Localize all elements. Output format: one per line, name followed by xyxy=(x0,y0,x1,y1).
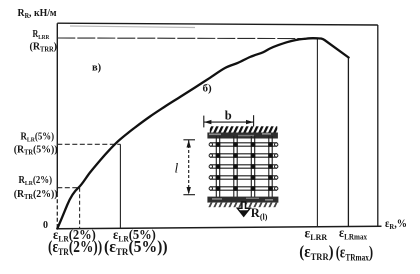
inset: geogrid mesh horizontal ribs xyxy=(210,143,277,190)
top frame smear (scan ghost line) xyxy=(70,26,195,28)
svg-text:(εTR(2%)): (εTR(2%)) xyxy=(48,239,102,257)
svg-text:(εTRmax): (εTRmax) xyxy=(336,244,374,263)
inset: geogrid mesh vertical ribs xyxy=(216,136,272,200)
inset: applied load arrow R(l) xyxy=(237,202,250,216)
inset: mesh junction knots xyxy=(216,142,273,191)
inset: mesh end rings left xyxy=(209,143,212,190)
svg-text:RLR(5%): RLR(5%) xyxy=(21,131,55,144)
curve б) load-strain curve xyxy=(57,38,348,228)
inset: top clamp bar xyxy=(207,133,278,139)
top frame line xyxy=(57,23,378,25)
svg-text:(RTRR): (RTRR) xyxy=(30,41,58,53)
inset: bottom clamp bar xyxy=(207,197,278,203)
svg-text:в): в) xyxy=(92,63,102,74)
R_LR(5%) dashed level line xyxy=(57,143,120,145)
svg-text:εLRR: εLRR xyxy=(305,226,328,243)
svg-text:RLR(2%): RLR(2%) xyxy=(19,175,53,188)
svg-text:R(l): R(l) xyxy=(251,206,268,222)
epsilon(2%) dashed vertical line xyxy=(79,188,81,229)
svg-text:(εTRR): (εTRR) xyxy=(299,243,333,262)
epsilon(5%) vertical line xyxy=(119,144,121,228)
R_LRR dashed level line xyxy=(57,37,317,40)
vertical line at epsilon_LRR (peak) xyxy=(316,39,318,227)
svg-text:0: 0 xyxy=(43,220,48,231)
svg-text:RLRR: RLRR xyxy=(33,28,50,41)
svg-text:RR, кН/м: RR, кН/м xyxy=(18,8,57,21)
y-axis faded lower segment xyxy=(56,193,58,229)
svg-text:(RTR(2%)): (RTR(2%)) xyxy=(14,189,58,201)
svg-text:б): б) xyxy=(203,82,213,94)
svg-text:(RTR(5%)): (RTR(5%)) xyxy=(14,144,58,156)
svg-text:εR,%: εR,% xyxy=(385,217,407,231)
inset: top hatched support strip xyxy=(210,126,277,132)
svg-text:εLRmax: εLRmax xyxy=(339,225,367,241)
inset: l dimension line xyxy=(183,140,195,195)
inset: mesh end rings right xyxy=(275,143,278,190)
inset: b dimension line xyxy=(204,115,254,127)
y-axis xyxy=(56,23,58,193)
inset: bottom hatch strip xyxy=(209,203,278,208)
svg-text:b: b xyxy=(225,108,232,122)
x-axis xyxy=(57,226,381,229)
vertical line at epsilon_LRmax (curve end drop) xyxy=(347,58,349,227)
svg-text:l: l xyxy=(175,161,179,176)
right frame line xyxy=(377,25,379,226)
svg-text:(εTR(5%)): (εTR(5%)) xyxy=(104,239,168,258)
R_LR(2%) dashed level line xyxy=(57,187,79,189)
